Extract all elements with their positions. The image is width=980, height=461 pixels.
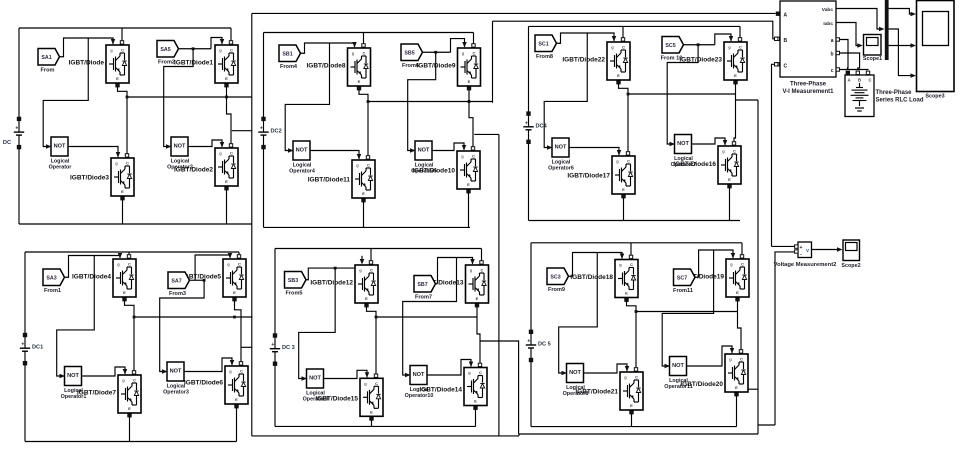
svg-text:SB7: SB7 (417, 282, 427, 288)
cell6 gate wire from SC7 to top-right IGBT (695, 250, 735, 277)
svg-text:E: E (630, 403, 633, 408)
svg-text:Voltage Measurement2: Voltage Measurement2 (774, 262, 837, 268)
cell3 left bus wire (528, 26, 530, 113)
NOT logical operator cell5L (302, 369, 329, 403)
svg-text:SC1: SC1 (538, 41, 548, 47)
svg-text:C: C (230, 151, 233, 156)
svg-text:DC4: DC4 (536, 123, 548, 129)
DC source DC5 (270, 334, 295, 427)
svg-text:From 10: From 10 (661, 56, 683, 62)
cell4 bottom bus wire (25, 441, 237, 443)
svg-text:SB1: SB1 (282, 51, 292, 57)
svg-text:IGBT/Diode15: IGBT/Diode15 (315, 396, 358, 403)
cell6 bottom-left IGBT emitter wire (630, 411, 633, 427)
svg-text:Scope1: Scope1 (863, 56, 882, 62)
svg-text:From11: From11 (673, 288, 693, 294)
svg-text:From9: From9 (548, 287, 565, 293)
svg-text:C: C (635, 375, 638, 380)
demux block (885, 0, 889, 60)
cell2 bottom-right IGBT emitter wire (467, 190, 470, 228)
IGBT/Diode block c3TL (562, 42, 630, 80)
cell2 gate wire from SB1 to top-left IGBT (301, 42, 357, 53)
IGBT/Diode block c3BR (673, 146, 741, 184)
svg-text:IGBT/Diode4: IGBT/Diode4 (72, 273, 111, 280)
IGBT/Diode block c1TL (69, 45, 129, 83)
cell4 left bus wire (24, 252, 26, 335)
cell5 top bus wire (275, 248, 482, 250)
svg-text:From: From (41, 68, 55, 74)
wire VM to Scope2 (812, 247, 843, 252)
svg-text:IGBT/Diode21: IGBT/Diode21 (575, 388, 618, 395)
cell4 top bus wire (25, 251, 239, 253)
bottom long bus wire right (519, 433, 758, 435)
svg-text:E: E (225, 76, 228, 81)
svg-text:DC: DC (3, 140, 11, 146)
svg-text:V-I Measurement1: V-I Measurement1 (782, 89, 834, 95)
svg-text:E: E (121, 189, 124, 194)
svg-text:SC3: SC3 (550, 274, 560, 280)
svg-text:IGBT/Diode14: IGBT/Diode14 (419, 386, 462, 393)
NOT logical operator cell2L (288, 141, 315, 175)
NOT logical operator cell1R (166, 137, 193, 171)
cell4 wire from gate node to NOT Operator3 (160, 279, 206, 372)
cell1 wire to C of top-left IGBT (120, 28, 123, 44)
From tag SB7 (414, 276, 436, 301)
svg-text:C: C (121, 48, 124, 53)
cell6 output tap wire (749, 388, 759, 390)
svg-text:E: E (467, 182, 470, 187)
IGBT/Diode block c6BL (575, 372, 643, 410)
cell2 B-rail drop wire (492, 21, 494, 103)
svg-text:Operator6: Operator6 (548, 166, 574, 172)
svg-text:E: E (128, 406, 131, 411)
cell6 left leg wire (top-left E to bottom-left C) (625, 298, 638, 371)
cell2 wire NOT output to bottom-right IGBT gate (434, 143, 466, 151)
cell3 wire to C of top-left IGBT (621, 26, 624, 41)
cell5 wire from gate node to NOT Operator10 (403, 258, 457, 376)
svg-text:+: + (260, 126, 263, 132)
IGBT/Diode block c6TL (570, 260, 638, 298)
DC source DC4 (20, 333, 43, 441)
NOT logical operator cell3L (547, 138, 574, 172)
cell2 wire to C of top-left IGBT (362, 33, 365, 48)
svg-text:E: E (735, 385, 738, 390)
svg-text:NOT: NOT (418, 148, 430, 154)
Scope2 block (841, 240, 860, 269)
svg-text:+: + (21, 342, 24, 348)
NOT logical operator cell2R (410, 141, 437, 175)
IGBT/Diode block c6TR (681, 259, 749, 297)
svg-text:IGBT/Diode11: IGBT/Diode11 (308, 176, 351, 183)
wire Iabc to Scope1 (836, 23, 863, 48)
bottom bus step wire (518, 434, 520, 436)
IGBT/Diode block c5TL (310, 265, 378, 303)
svg-text:NOT: NOT (677, 141, 689, 147)
svg-text:+: + (800, 245, 803, 251)
cell5 bottom-right IGBT emitter wire (474, 406, 477, 426)
IGBT/Diode block c1BR (174, 148, 238, 186)
cell1 bottom-left IGBT emitter wire (121, 197, 124, 225)
svg-text:From2: From2 (158, 60, 175, 66)
svg-text:NOT: NOT (67, 373, 79, 379)
cell6 bottom bus wire (531, 426, 737, 428)
cell3 mid node wire (627, 93, 736, 96)
svg-text:DC 3: DC 3 (282, 345, 295, 351)
cell4 gate wire from SA7 to top-right IGBT (190, 253, 233, 280)
svg-text:C: C (630, 262, 633, 267)
svg-text:E: E (116, 76, 119, 81)
svg-text:E: E (474, 399, 477, 404)
svg-text:Operator3: Operator3 (163, 390, 189, 396)
svg-text:E: E (123, 290, 126, 295)
IGBT/Diode block c4TR (182, 259, 246, 297)
left column vertical bus wire (251, 13, 253, 436)
cell1 gate wire from SA5 to top-right IGBT (179, 38, 225, 49)
svg-text:IGBT/Diode20: IGBT/Diode20 (680, 381, 723, 388)
svg-text:NOT: NOT (569, 370, 581, 376)
svg-text:Series RLC Load: Series RLC Load (876, 98, 924, 104)
cell5 wire to C of top-left IGBT (369, 249, 372, 265)
svg-text:Operator4: Operator4 (289, 169, 315, 175)
cell2 bottom-left IGBT emitter wire (362, 199, 365, 228)
svg-text:From7: From7 (415, 295, 432, 301)
svg-text:Three-Phase: Three-Phase (876, 90, 913, 96)
svg-text:A: A (784, 13, 788, 19)
voltage measurement plus wire (772, 245, 795, 247)
NOT logical operator cell6R (664, 357, 692, 391)
svg-text:IGBT/Diode3: IGBT/Diode3 (70, 174, 109, 181)
cell6 wire to C of top-left IGBT (629, 243, 632, 259)
cell6 wire from gate node to NOT Operator11 (662, 250, 713, 366)
svg-text:C: C (479, 370, 482, 375)
svg-text:+: + (525, 120, 528, 126)
cell6 gate wire from SC3 to top-left IGBT (569, 253, 625, 277)
svg-text:b: b (830, 52, 833, 58)
svg-text:NOT: NOT (555, 145, 567, 151)
svg-text:B: B (858, 78, 861, 83)
cell6 bottom-right IGBT emitter wire (735, 393, 738, 427)
cell5 output tap wire (480, 341, 519, 434)
From tag SA7 (168, 272, 190, 297)
Voltage Measurement2 block (774, 242, 837, 268)
From tag SA5 (157, 41, 179, 66)
svg-text:IGBT/Diode1: IGBT/Diode1 (174, 59, 213, 66)
svg-text:E: E (736, 290, 739, 295)
svg-text:E: E (476, 296, 479, 301)
svg-text:C: C (784, 64, 788, 70)
cell4 bottom-right IGBT emitter wire (235, 405, 238, 442)
svg-text:C: C (238, 262, 241, 267)
wire c to RLC load (840, 69, 869, 72)
cell1 left bus wire (18, 28, 20, 119)
cell2 top bus wire (264, 32, 474, 34)
svg-text:IGBT/Diode23: IGBT/Diode23 (679, 56, 722, 63)
cell2 right leg wire (top-right E to bottom-right C) (467, 87, 474, 151)
From tag SA1 (38, 49, 60, 74)
svg-text:NOT: NOT (174, 144, 186, 150)
svg-text:NOT: NOT (413, 372, 425, 378)
svg-text:E: E (358, 79, 361, 84)
cell5 left bus wire (274, 249, 276, 336)
cell6 wire NOT output to bottom-right IGBT gate (689, 346, 735, 366)
svg-text:SB5: SB5 (404, 50, 414, 56)
cell1 bottom bus wire (19, 223, 252, 225)
NOT logical operator cell3R (670, 135, 697, 169)
cell1 bottom-right IGBT emitter wire (225, 187, 228, 225)
svg-text:E: E (617, 73, 620, 78)
IGBT/Diode block c3TR (679, 42, 747, 80)
svg-text:Iabc: Iabc (823, 21, 833, 27)
bottom bus to minus wire (758, 424, 775, 426)
cell4 wire to C of top-left IGBT (127, 252, 130, 258)
cell5 wire from gate node to NOT Operator9 (299, 267, 337, 379)
cell4 wire to C of top-right IGBT (237, 252, 240, 258)
svg-text:SA7: SA7 (171, 278, 181, 284)
From tag SC3 (547, 268, 569, 293)
cell1 mid node wire (126, 96, 252, 99)
cell3 gate wire from SC1 to top-left IGBT (557, 33, 617, 43)
svg-text:B: B (784, 38, 788, 44)
cell1 output tap wire (232, 130, 252, 132)
svg-text:C: C (128, 262, 131, 267)
svg-text:NOT: NOT (309, 376, 321, 382)
IGBT/Diode block c1TR (174, 45, 238, 83)
NOT logical operator cell6L (562, 364, 589, 398)
cell3 wire NOT output to bottom-left IGBT gate (571, 148, 621, 156)
svg-text:E: E (225, 179, 228, 184)
cell6 wire from gate node to NOT Operator8 (559, 253, 598, 374)
svg-text:E: E (728, 177, 731, 182)
Three-Phase Series RLC Load block (845, 71, 924, 116)
svg-text:IGBT/Diode10: IGBT/Diode10 (412, 167, 455, 174)
svg-text:C: C (733, 149, 736, 154)
svg-text:IGBT/Diode12: IGBT/Diode12 (310, 279, 353, 286)
cell3 bottom-right IGBT emitter wire (728, 185, 731, 221)
cell1 wire from gate node to NOT Operator2 (164, 47, 195, 146)
svg-text:NOT: NOT (54, 144, 66, 150)
IGBT/Diode block c5BL (315, 378, 383, 416)
NOT logical operator cell1L (46, 137, 72, 171)
wire b to RLC load (840, 53, 860, 70)
svg-text:E: E (233, 290, 236, 295)
demux out2 wire (889, 43, 916, 48)
svg-text:C: C (367, 163, 370, 168)
svg-text:C: C (741, 262, 744, 267)
cell5 mid node wire (375, 316, 477, 319)
svg-text:IGBT/Diode8: IGBT/Diode8 (306, 62, 345, 69)
svg-text:IGBT/Diode18: IGBT/Diode18 (570, 274, 613, 281)
cell6 wire to C of top-right IGBT (740, 243, 743, 258)
cell1 gate wire from SA1 to top-left IGBT (60, 38, 116, 57)
svg-text:IGBT/Diode: IGBT/Diode (69, 59, 105, 66)
svg-text:+: + (15, 126, 18, 132)
IGBT/Diode block c2BR (412, 151, 480, 189)
Three-Phase V-I Measurement1 block (775, 1, 840, 95)
demux out1 wire (889, 9, 916, 17)
demux out3 wire (889, 29, 916, 78)
svg-text:C: C (627, 159, 630, 164)
cell4 left leg wire (top-left E to bottom-left C) (123, 298, 136, 375)
svg-text:SC5: SC5 (665, 43, 675, 49)
svg-text:Operator: Operator (49, 165, 73, 171)
cell1 top bus wire (19, 27, 231, 29)
cell2 wire from gate node to NOT Operator5 (408, 51, 437, 151)
cell2 bottom bus wire (264, 226, 471, 228)
phase A rail wire to V-I input A (252, 12, 780, 15)
cell6 wire NOT output to bottom-left IGBT gate (586, 364, 630, 373)
svg-text:IGBT/Diode2: IGBT/Diode2 (174, 166, 213, 173)
svg-text:NOT: NOT (170, 369, 182, 375)
cell5 gate wire from SB7 to top-right IGBT (436, 258, 475, 284)
svg-text:C: C (133, 378, 136, 383)
svg-text:E: E (365, 296, 368, 301)
svg-text:From1: From1 (44, 288, 61, 294)
voltage measurement minus vertical wire (775, 252, 794, 425)
From tag SB3 (285, 272, 307, 297)
svg-text:C: C (481, 268, 484, 273)
svg-text:C: C (868, 78, 871, 83)
IGBT/Diode block c4BL (77, 375, 141, 413)
IGBT/Diode block c3BL (567, 156, 635, 194)
cell6 top bus wire (531, 242, 742, 244)
svg-text:DC2: DC2 (271, 129, 282, 135)
IGBT/Diode block c4TL (72, 259, 136, 297)
svg-text:From5: From5 (285, 291, 302, 297)
svg-text:c: c (831, 68, 834, 74)
svg-text:C: C (370, 268, 373, 273)
svg-text:Scope3: Scope3 (925, 94, 944, 100)
cell3 left leg wire (top-left E to bottom-left C) (617, 81, 630, 156)
cell5 bottom bus wire (275, 425, 476, 427)
IGBT/Diode block c4BR (184, 366, 248, 404)
DC source DC2 (258, 117, 281, 227)
svg-text:C: C (230, 48, 233, 53)
svg-text:SA1: SA1 (41, 55, 51, 61)
cell3 right leg wire (top-right E to bottom-right C) (732, 81, 737, 146)
svg-text:Vabc: Vabc (822, 7, 834, 13)
svg-text:C: C (472, 154, 475, 159)
cell4 gate wire from SA3 to top-left IGBT (65, 253, 123, 277)
svg-text:Scope2: Scope2 (841, 263, 860, 269)
right column vertical bus wire (757, 100, 759, 434)
From tag SC7 (673, 269, 695, 294)
cell4 wire NOT output to bottom-left IGBT gate (84, 367, 128, 376)
cell4 mid node wire (133, 316, 253, 319)
cell4 wire NOT output to bottom-right IGBT gate (186, 358, 234, 372)
cell3 wire from gate node to NOT Operator7 (667, 43, 699, 144)
svg-text:IGBT/Diode17: IGBT/Diode17 (567, 172, 610, 179)
IGBT/Diode block c1BL (70, 158, 134, 196)
svg-text:SA3: SA3 (46, 275, 56, 281)
svg-text:Operator10: Operator10 (405, 393, 434, 399)
DC source DC6 (526, 330, 551, 427)
IGBT/Diode block c2TL (306, 48, 370, 86)
svg-text:E: E (625, 291, 628, 296)
svg-text:NOT: NOT (296, 148, 308, 154)
svg-text:A: A (847, 78, 850, 83)
svg-text:DC 5: DC 5 (538, 342, 551, 348)
cell3 gate wire from SC5 to top-right IGBT (684, 34, 734, 45)
svg-text:SB3: SB3 (288, 278, 298, 284)
cell1 left leg wire (top-left E to bottom-left C) (116, 84, 129, 158)
wire a to RLC load (840, 40, 849, 71)
svg-text:From6: From6 (402, 63, 419, 69)
cell5 gate wire from SB3 to top-left IGBT (306, 256, 364, 280)
cell1 wire NOT output to bottom-left IGBT gate (70, 147, 120, 158)
From tag SB1 (279, 45, 301, 70)
cell5 wire NOT output to bottom-left IGBT gate (326, 370, 370, 378)
svg-text:IGBT/Diode7: IGBT/Diode7 (77, 389, 116, 396)
svg-text:C: C (739, 45, 742, 50)
cell5 bottom-left IGBT emitter wire (370, 417, 373, 427)
IGBT/Diode block c5BR (419, 368, 487, 406)
Scope3 block (917, 1, 955, 100)
cell2 wire from gate node to NOT Operator4 (285, 43, 329, 151)
svg-text:E: E (622, 187, 625, 192)
svg-text:E: E (362, 191, 365, 196)
cell1 wire to C of top-right IGBT (229, 28, 232, 44)
cell5 wire NOT output to bottom-right IGBT gate (429, 360, 473, 376)
cell5 left leg wire (top-left E to bottom-left C) (365, 304, 378, 378)
Scope1 block (863, 35, 882, 63)
cell2 left bus wire (263, 33, 265, 119)
NOT logical operator cell5R (405, 366, 434, 400)
svg-text:C: C (375, 381, 378, 386)
NOT logical operator cell4L (60, 367, 87, 401)
svg-text:C: C (126, 161, 129, 166)
cell3 wire from gate node to NOT Operator6 (544, 33, 587, 148)
cell4 wire from gate node to NOT Operator1 (57, 256, 95, 377)
cell4 output tap wire 2 (241, 346, 252, 348)
wire Vabc to demux (836, 9, 885, 32)
svg-text:C: C (363, 51, 366, 56)
cell3 top bus wire (529, 25, 741, 27)
From tag SA3 (43, 269, 65, 294)
phase B rail wire (493, 21, 780, 40)
DC source DC1 (3, 117, 24, 224)
svg-text:a: a (831, 38, 834, 44)
svg-text:From3: From3 (169, 291, 186, 297)
IGBT/Diode block c2TR (416, 48, 480, 86)
svg-text:E: E (734, 73, 737, 78)
svg-text:+: + (271, 342, 274, 348)
svg-text:C: C (622, 45, 625, 50)
IGBT/Diode block c2BL (308, 160, 375, 198)
svg-text:NOT: NOT (672, 363, 684, 369)
svg-text:C: C (240, 369, 243, 374)
IGBT/Diode block c6BR (680, 354, 748, 392)
cell1 wire NOT output to bottom-right IGBT gate (190, 140, 224, 148)
DC source DC3 (523, 112, 547, 221)
cell3 wire to C of top-right IGBT (738, 26, 741, 41)
From tag SC5 (661, 37, 684, 62)
cell3 wire NOT output to bottom-right IGBT gate (694, 138, 728, 146)
From tag SB5 (401, 44, 423, 69)
svg-text:From4: From4 (280, 64, 298, 70)
svg-text:C: C (740, 357, 743, 362)
cell4 right leg wire (top-right E to bottom-right C) (233, 298, 243, 366)
cell4 bottom-left IGBT emitter wire (128, 414, 131, 442)
svg-text:IGBT/Diode16: IGBT/Diode16 (673, 161, 716, 168)
svg-text:+: + (527, 339, 530, 345)
cell2 left leg wire (top-left E to bottom-left C) (357, 87, 369, 160)
cell2 wire NOT output to bottom-left IGBT gate (312, 151, 361, 160)
cell1 right leg wire (top-right E to bottom-right C) (225, 84, 233, 148)
cell2 wire to C of top-right IGBT (472, 33, 475, 48)
cell2 gate wire from SB5 to top-right IGBT (423, 39, 467, 53)
svg-text:E: E (235, 397, 238, 402)
svg-text:SA5: SA5 (160, 47, 170, 53)
